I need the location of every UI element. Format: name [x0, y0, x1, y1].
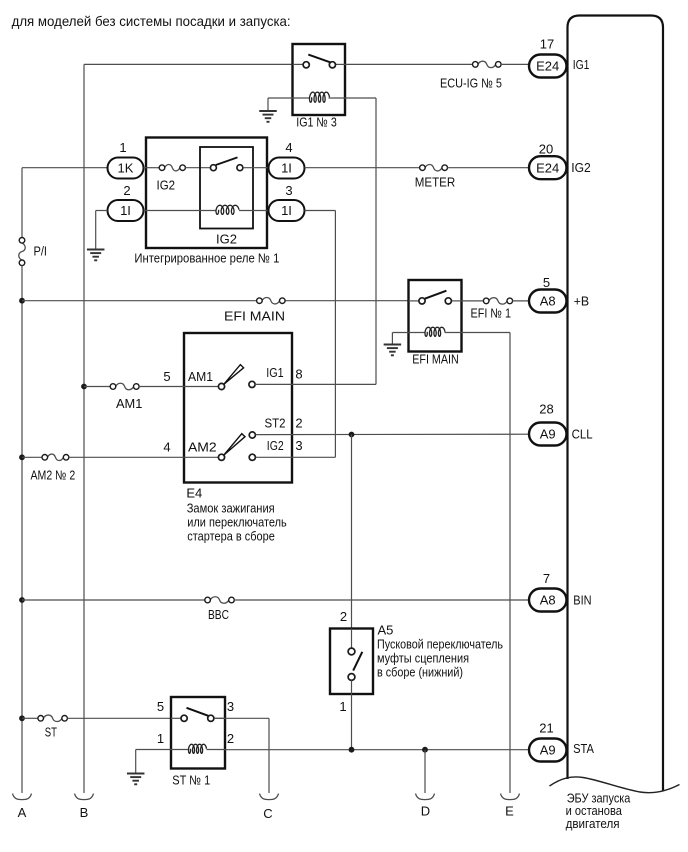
svg-text:IG2: IG2 [216, 232, 237, 247]
pin label 3 STNo1 [227, 699, 234, 714]
pin label 8 [295, 367, 302, 382]
svg-text:A5: A5 [378, 623, 394, 638]
contact ST2 [249, 432, 255, 438]
wire 1I pin3 to E4 IG2 vertical x335 [305, 211, 336, 458]
ECU port label +B [574, 294, 590, 309]
label A5 line1 [377, 637, 503, 652]
connector A8 +B [529, 290, 567, 313]
svg-text:METER: METER [415, 175, 456, 190]
pin number 17 [540, 37, 554, 52]
wire A5 vertical lower [351, 694, 353, 750]
fuse IG2 [159, 164, 185, 170]
wire fuse IG2 to inner relay [185, 167, 210, 169]
wire 1K from A-bus corner [22, 168, 108, 238]
svg-text:АМ2 № 2: АМ2 № 2 [31, 468, 76, 483]
wire 1I pin2 to coil [144, 210, 217, 212]
wire EFI MAIN to fuse EFI No1 [462, 300, 484, 302]
wire ST No1 switch stubs [171, 717, 225, 719]
contact A5 top [348, 648, 355, 655]
pin label 1 STNo1 [157, 731, 164, 746]
ground at IG1 No3 [259, 111, 277, 122]
junction D x STA [422, 747, 428, 753]
fuse AM2 No 2 [42, 454, 69, 460]
pin label 5 STNo1 [157, 699, 164, 714]
ECU port label STA [573, 741, 594, 756]
terminator D [416, 794, 435, 819]
pin label 1 A5 [339, 699, 346, 714]
svg-text:5: 5 [157, 699, 164, 714]
wire IG2 pin3 to vertical x335 [256, 456, 336, 458]
junction B x AM1 [81, 384, 87, 390]
ground at ST No1 [127, 774, 145, 785]
relay ST No1 switch blade [187, 708, 209, 716]
svg-text:4: 4 [163, 440, 170, 455]
wire coil output vertical x376 [345, 98, 376, 384]
relay EFI MAIN switch contacts [419, 298, 452, 304]
wire A5 vertical upper [351, 435, 353, 629]
label IG1 No 3 [296, 115, 337, 130]
contact AM2 [218, 454, 224, 460]
wire B-bus top segment to IG1 No3 [84, 63, 293, 65]
ignition switch E4 box [184, 333, 292, 483]
contact IG1 pin8 [249, 381, 255, 387]
svg-text:E: E [505, 804, 514, 819]
label IG2 inside E4 [267, 438, 284, 453]
relay IG1 No3 switch blade [308, 55, 330, 63]
label EFI No 1 [471, 306, 512, 321]
svg-text:Замок зажигания: Замок зажигания [187, 501, 275, 516]
svg-text:21: 21 [539, 721, 553, 736]
label ECU line1 [567, 791, 631, 806]
svg-text:17: 17 [540, 37, 554, 52]
svg-text:AM1: AM1 [116, 396, 142, 411]
label fuse EFI MAIN [224, 309, 285, 324]
terminator B [75, 794, 94, 820]
svg-text:A8: A8 [540, 593, 556, 608]
fuse ECU-IG No 5 [473, 61, 502, 67]
wire D vertical [424, 750, 426, 793]
wire A5 bottom stub [351, 681, 353, 695]
relay EFI MAIN coil [425, 327, 445, 336]
integrated relay inner box [200, 147, 253, 229]
label E4 line1 [187, 501, 275, 516]
ground at EFI MAIN [384, 345, 402, 356]
pin label 2 STNo1 [227, 731, 234, 746]
svg-text:3: 3 [227, 699, 234, 714]
label ST2 inside E4 [265, 416, 286, 431]
label AM1 inside E4 [188, 369, 213, 384]
svg-text:1I: 1I [281, 203, 292, 218]
clutch switch A5 box [330, 629, 373, 695]
wire A to AM2 fuse [22, 456, 42, 458]
svg-text:1I: 1I [281, 161, 292, 176]
label A5 line2 [377, 651, 469, 666]
svg-text:IG1: IG1 [573, 57, 590, 72]
svg-text:для моделей без системы посадк: для моделей без системы посадки и запуск… [12, 13, 291, 29]
label P/I [34, 244, 48, 259]
wire A-bus [21, 266, 23, 794]
contact IG2 pin3 [249, 454, 255, 460]
svg-text:E4: E4 [186, 486, 202, 501]
label AM1 [116, 396, 142, 411]
svg-text:2: 2 [340, 609, 347, 624]
svg-text:B: B [80, 805, 89, 820]
connector A8 BIN [529, 589, 567, 612]
fuse P/I [19, 238, 25, 266]
svg-text:4: 4 [285, 140, 292, 155]
relay IG1 No3 switch contacts [303, 62, 335, 68]
svg-text:ECU-IG № 5: ECU-IG № 5 [440, 76, 502, 91]
label ST No 1 [172, 773, 210, 788]
wire ST2 to CLL [256, 433, 530, 435]
wire EFI MAIN coil left to ground [392, 333, 425, 345]
svg-text:двигателя: двигателя [566, 816, 620, 831]
svg-text:EFI № 1: EFI № 1 [471, 306, 512, 321]
svg-text:CLL: CLL [572, 426, 593, 441]
pin number 3 [285, 183, 292, 198]
pin number 28 [539, 402, 553, 417]
svg-text:A9: A9 [540, 743, 556, 758]
label E4 line3 [187, 529, 274, 544]
wire IG1 No3 coil to ground [268, 98, 293, 111]
svg-text:EFI MAIN: EFI MAIN [412, 352, 459, 367]
label E4 [186, 486, 202, 501]
label integrated relay No 1 [134, 251, 279, 266]
wire ST fuse to ST No1 [67, 717, 171, 719]
wire B-bus [83, 64, 85, 793]
wire METER to E24 IG2 [448, 167, 530, 169]
svg-text:IG2: IG2 [571, 160, 591, 175]
svg-text:P/I: P/I [34, 244, 48, 259]
wire coil to 1I pin3 [239, 210, 269, 212]
svg-text:1: 1 [339, 699, 346, 714]
pin number 20 [539, 142, 553, 157]
label BBC [208, 607, 229, 622]
svg-text:Интегрированное реле № 1: Интегрированное реле № 1 [134, 251, 279, 266]
label A5 line3 [377, 665, 463, 680]
title text [12, 13, 291, 29]
pin label 2 ST2 [295, 416, 302, 431]
wire A to ST fuse [22, 717, 38, 719]
svg-text:IG1 № 3: IG1 № 3 [296, 115, 337, 130]
label ECU line2 [566, 803, 623, 818]
relay EFI MAIN switch blade [425, 291, 447, 299]
fuse ST [38, 715, 68, 721]
wire coil to box right [207, 749, 226, 751]
relay pin oval 1I pin3 [269, 200, 305, 221]
inner relay switch contacts [210, 165, 243, 171]
svg-text:5: 5 [543, 275, 550, 290]
junction A x AM2 [19, 454, 25, 460]
svg-text:ST: ST [45, 725, 57, 740]
pin label 2 A5 [340, 609, 347, 624]
wire 1I pin2 to ground [96, 211, 108, 250]
svg-text:IG2: IG2 [267, 438, 284, 453]
svg-text:2: 2 [295, 416, 302, 431]
svg-text:8: 8 [295, 367, 302, 382]
label AM2 inside E4 [188, 440, 217, 455]
svg-text:AM1: AM1 [188, 369, 213, 384]
fuse EFI MAIN [257, 297, 286, 303]
svg-text:1: 1 [157, 731, 164, 746]
relay pin oval 1I pin2 [108, 200, 144, 221]
svg-text:BIN: BIN [573, 592, 591, 607]
ECU port label IG1 [573, 57, 590, 72]
junction ST2 x A5 branch [349, 432, 355, 438]
label EFI MAIN relay [412, 352, 459, 367]
wire BBC to A8 BIN [234, 599, 529, 601]
pin number 2 [123, 183, 130, 198]
svg-text:2: 2 [123, 183, 130, 198]
wire E vertical [509, 333, 511, 794]
junction A5 x STA [349, 747, 355, 753]
fuse METER [420, 164, 448, 170]
inner relay switch blade [216, 157, 238, 165]
contact AM1 [218, 383, 224, 389]
ECU port label IG2 [571, 160, 591, 175]
wire AM2 fuse to E4 [69, 456, 184, 458]
junction A x BBC [19, 597, 25, 603]
svg-text:E24: E24 [536, 59, 559, 74]
ECU bottom wave [550, 777, 680, 793]
junction A x ST [19, 715, 25, 721]
wire fuse to E24 IG1 [501, 63, 529, 65]
wire AM2 stub inside E4 [184, 456, 219, 458]
svg-text:+B: +B [574, 294, 590, 309]
blade A5 [353, 652, 362, 671]
wire inner relay to 1I pin4 [243, 167, 269, 169]
svg-text:3: 3 [285, 183, 292, 198]
inner relay coil [216, 205, 239, 214]
relay EFI MAIN box [409, 280, 462, 352]
svg-text:5: 5 [163, 369, 170, 384]
wire EFI MAIN switch stubs [409, 300, 462, 302]
pin number 5 [543, 275, 550, 290]
label inner IG2 [216, 232, 237, 247]
relay ST No 1 box [171, 697, 225, 769]
svg-text:муфты сцепления: муфты сцепления [377, 651, 469, 666]
pin number 7 [543, 571, 550, 586]
wire IG1 No3 coil row [293, 97, 346, 99]
blade AM2 wedge [224, 434, 245, 455]
wire ST No1 coil left to ground [136, 750, 189, 774]
svg-text:A9: A9 [540, 427, 556, 442]
fuse BBC [205, 597, 235, 603]
terminator E [501, 794, 520, 819]
svg-text:1: 1 [119, 140, 126, 155]
relay pin oval 1K [108, 158, 144, 179]
terminator C [260, 794, 279, 821]
wire AM1 fuse to E4 [139, 386, 184, 388]
ECU port label CLL [572, 426, 593, 441]
contact A5 bottom [348, 674, 355, 681]
svg-text:E24: E24 [536, 160, 559, 175]
wire fuse to A8 +B [513, 300, 530, 302]
label ST [45, 725, 57, 740]
wire A5 top stub [351, 629, 353, 649]
svg-text:A: A [18, 805, 27, 820]
svg-text:BBC: BBC [208, 607, 229, 622]
integrated relay outer box [146, 138, 267, 249]
svg-text:20: 20 [539, 142, 553, 157]
svg-text:стартера в сборе: стартера в сборе [187, 529, 274, 544]
relay ST No1 coil [189, 744, 207, 753]
wire IG1 No3 switch stubs [293, 63, 346, 65]
fuse EFI No 1 [483, 298, 512, 304]
label A5 [378, 623, 394, 638]
label ECU line3 [566, 816, 620, 831]
label METER [415, 175, 456, 190]
svg-text:C: C [263, 806, 272, 821]
svg-text:7: 7 [543, 571, 550, 586]
label IG1 inside E4 [266, 365, 283, 380]
svg-text:Пусковой переключатель: Пусковой переключатель [377, 637, 503, 652]
svg-text:IG2: IG2 [157, 178, 176, 193]
svg-text:28: 28 [539, 402, 553, 417]
connector E24 pin20 [529, 156, 567, 179]
svg-text:1I: 1I [120, 203, 131, 218]
wire A to BBC fuse [22, 599, 205, 601]
blade AM1 wedge [224, 365, 244, 385]
fuse AM1 [110, 383, 139, 389]
wire pin3 to C vertical [214, 718, 269, 793]
pin label 4 AM2 [163, 440, 170, 455]
label E4 line2 [187, 515, 287, 530]
svg-text:ST2: ST2 [265, 416, 286, 431]
wire 1I pin4 to METER fuse [305, 167, 420, 169]
svg-text:1K: 1K [118, 161, 134, 176]
relay ST No1 switch contacts [181, 715, 214, 721]
pin label 3 IG2 [295, 438, 302, 453]
svg-text:в сборе (нижний): в сборе (нижний) [377, 665, 463, 680]
pin label 5 AM1 [163, 369, 170, 384]
svg-text:IG1: IG1 [266, 365, 283, 380]
wire A-bus to EFI MAIN relay [22, 300, 409, 302]
svg-text:или переключатель: или переключатель [187, 515, 287, 530]
wire B to AM1 fuse [84, 386, 111, 388]
ECU box outline [568, 16, 664, 791]
ground at relay pin2 [87, 250, 105, 261]
ECU port label BIN [573, 592, 591, 607]
connector A9 STA [529, 739, 567, 762]
relay pin oval 1I pin4 [269, 158, 305, 179]
connector E24 pin17 [529, 55, 567, 78]
label ECU-IG No 5 [440, 76, 502, 91]
svg-text:STA: STA [573, 741, 594, 756]
wire IG1 pin8 to vertical [255, 383, 376, 385]
svg-text:EFI MAIN: EFI MAIN [224, 309, 285, 324]
junction A x EFI MAIN [19, 298, 25, 304]
pin number 4 [285, 140, 292, 155]
wire 1K to fuse IG2 [144, 167, 160, 169]
svg-text:3: 3 [295, 438, 302, 453]
label fuse IG2 [157, 178, 176, 193]
wire STA row [225, 749, 529, 751]
relay IG1 No3 coil [310, 92, 330, 102]
wire AM1 stub inside E4 [184, 386, 219, 388]
terminator A [13, 794, 32, 820]
wire EFI MAIN coil to E line [445, 332, 511, 334]
relay IG1 No 3 box [293, 44, 346, 115]
svg-text:D: D [421, 804, 430, 819]
svg-text:A8: A8 [540, 294, 556, 309]
pin number 1 [119, 140, 126, 155]
label AM2 No 2 [31, 468, 76, 483]
connector A9 CLL [529, 423, 567, 446]
svg-text:AM2: AM2 [188, 440, 217, 455]
svg-text:ST № 1: ST № 1 [172, 773, 210, 788]
wire IG1 No3 to fuse ECU-IG [345, 63, 473, 65]
svg-text:2: 2 [227, 731, 234, 746]
pin number 21 [539, 721, 553, 736]
